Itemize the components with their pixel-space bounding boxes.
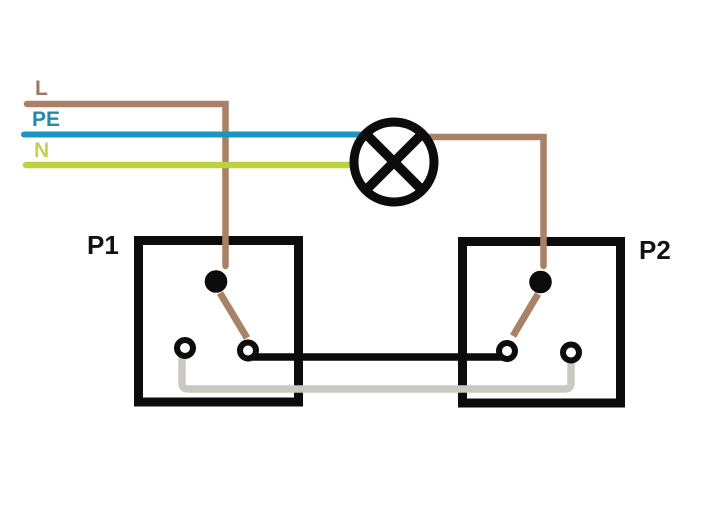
svg-text:L: L — [35, 77, 48, 100]
wire: brown from lamp to P2 common — [428, 137, 544, 266]
switch box P2 — [463, 242, 621, 404]
wire: L line from terminal block to P1 common — [27, 104, 226, 266]
P2 switch lever (brown) — [513, 294, 538, 336]
wire: black traveler between P1 right terminal and P2 left terminal — [252, 353, 502, 361]
P2 terminal left — [499, 343, 515, 359]
lamp E1 cross stroke 1 — [365, 133, 423, 191]
P1 switch lever (brown) — [220, 293, 247, 338]
svg-text:P2: P2 — [639, 235, 671, 265]
svg-text:PE: PE — [32, 108, 60, 131]
wire: gray traveler from P1 left terminal to P2 right terminal — [182, 350, 571, 389]
P1 terminal left — [177, 340, 193, 356]
P1 common contact dot — [205, 270, 228, 293]
P2 terminal right — [563, 345, 579, 361]
switch box P1 — [139, 241, 299, 403]
wire: N line — [26, 162, 357, 169]
lamp E1 circle — [354, 122, 434, 202]
svg-text:P1: P1 — [87, 230, 119, 260]
lamp E1 cross stroke 2 — [365, 133, 423, 191]
P2 common contact dot — [529, 271, 552, 294]
P1 terminal right — [240, 343, 256, 359]
svg-text:N: N — [34, 139, 49, 162]
wire: PE line — [24, 132, 362, 138]
